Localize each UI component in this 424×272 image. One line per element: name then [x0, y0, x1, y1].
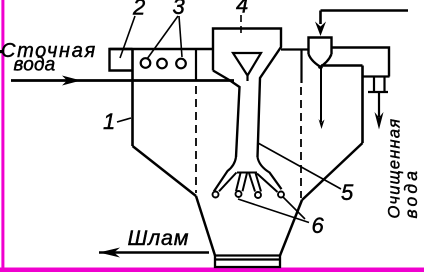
sludge arrow line [99, 251, 209, 253]
outlet arrow shaft [378, 92, 380, 117]
hopper inlet arrowhead [315, 22, 326, 37]
tank top edge mid (feedbox to hopper) [281, 48, 309, 50]
leader 3b [179, 16, 182, 57]
tank left cone upper [133, 146, 197, 196]
circle aerator 2 [157, 59, 167, 69]
outlet box top line [363, 75, 390, 77]
inlet arrowhead [62, 76, 81, 86]
box 2 (inlet chamber) [110, 49, 133, 71]
feed box left taper to neck [213, 71, 240, 158]
tank right cone upper [302, 143, 363, 200]
leader 1 [117, 118, 131, 122]
nozzle circle 1 [213, 192, 219, 198]
inner wall left dashed [195, 86, 197, 193]
nozzle tube 3 [249, 173, 261, 192]
circle aerator 1 [141, 58, 151, 68]
nozzle tube 1 inner [219, 173, 237, 192]
nozzle tube 2 [236, 173, 247, 191]
nozzle circle 4 [278, 192, 284, 198]
leader 4 [240, 15, 242, 34]
hopper inlet top line [321, 9, 409, 11]
leader 6a [238, 199, 309, 223]
inner wall right solid [300, 50, 302, 84]
leader 5 [258, 143, 341, 189]
svg-text:вода: вода [14, 55, 56, 76]
inner wall left solid [195, 49, 197, 82]
tank right wall [361, 66, 364, 144]
svg-text:вода: вода [401, 168, 421, 219]
svg-text:1: 1 [103, 109, 115, 134]
nozzle circle 2 [236, 191, 242, 197]
feed box 4 outline [213, 29, 281, 158]
launder line [332, 48, 390, 77]
scan border bottom magenta strip [0, 268, 424, 272]
nozzle manifold bottom [237, 172, 257, 174]
tank top edge right [321, 64, 363, 66]
svg-text:Шлам: Шлам [128, 226, 190, 250]
nozzle tube 4 inner [257, 174, 278, 193]
svg-text:6: 6 [312, 213, 325, 238]
svg-text:4: 4 [236, 0, 248, 18]
tank top edge left [110, 48, 214, 51]
outlet box sides [374, 77, 385, 93]
tank left cone lower [196, 196, 215, 256]
leader 6b [283, 197, 305, 219]
leader 2 [120, 16, 135, 58]
outlet arrowhead [375, 112, 384, 130]
nozzle circle 3 [255, 192, 261, 198]
hopper down pipe [320, 67, 322, 123]
bottom outlet rect [215, 256, 280, 268]
hopper (air separator) [309, 38, 332, 69]
hopper inlet vertical [319, 11, 322, 25]
scan artifact dot before text [0, 50, 3, 53]
svg-text:5: 5 [341, 180, 354, 205]
funnel triangle [233, 53, 261, 81]
inner wall right dashed [300, 87, 302, 198]
nozzle flare right outline [258, 157, 282, 189]
outlet box bottom flange [368, 91, 388, 93]
wire inlet line [11, 79, 234, 82]
sludge arrowhead [99, 248, 120, 258]
tank left wall [131, 49, 134, 146]
hopper pipe arrowhead [319, 119, 325, 129]
scan border left magenta strip [1, 0, 4, 272]
nozzle flare left outline [214, 157, 236, 192]
circle aerator 3 [176, 59, 186, 69]
leader 3a [147, 16, 178, 59]
tank right cone lower [280, 200, 302, 256]
